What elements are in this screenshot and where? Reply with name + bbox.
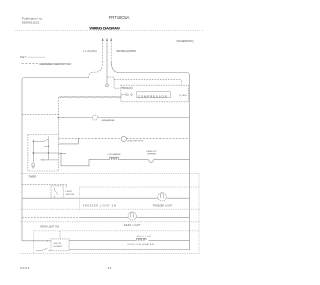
run winding wire (fine dotted) — [59, 96, 121, 98]
mullion heater wire — [69, 239, 137, 241]
svg-text:ENERGIZED IN DEFROST ONLY: ENERGIZED IN DEFROST ONLY — [40, 62, 72, 66]
svg-text:KEY: KEY — [20, 55, 27, 59]
wire ground run to compressor right (dashed) — [114, 80, 182, 85]
cabinet dotted right vertical — [198, 174, 200, 254]
compressor internal terminals — [131, 87, 133, 89]
svg-text:4(2): 4(2) — [125, 95, 129, 97]
timer contact arm — [33, 139, 48, 141]
lower return wire to bus — [69, 249, 190, 251]
svg-text:(MULLION HEATER): (MULLION HEATER) — [128, 243, 155, 246]
bottom circuit wire from bus — [22, 240, 51, 242]
junction riser/defrost wire — [78, 138, 79, 139]
svg-text:COIL HEATER: COIL HEATER — [108, 153, 121, 156]
refrigerator light wire — [22, 216, 80, 218]
timer box (dashed) — [28, 135, 59, 172]
svg-text:MULLION: MULLION — [137, 236, 151, 238]
mullion heater element — [137, 238, 146, 240]
svg-text:FRT18C5A: FRT18C5A — [109, 15, 130, 20]
svg-text:THERMO: THERMO — [147, 154, 157, 156]
power cord arrow neutral — [110, 38, 112, 41]
evap fan motor FM — [92, 115, 97, 120]
timer internal rung extra — [44, 145, 49, 147]
wire L1 curve to left — [89, 61, 103, 78]
evap fan wire — [22, 113, 58, 115]
freezer lamp — [158, 193, 166, 201]
svg-text:WIRING DIAGRAM: WIRING DIAGRAM — [89, 25, 119, 30]
wire L1 horizontal run — [22, 78, 89, 81]
svg-text:LIGHT: LIGHT — [66, 191, 73, 193]
wire L1 lead (dashed) — [102, 43, 104, 62]
defrost heater DH — [121, 136, 126, 141]
header dotted rule — [15, 29, 205, 31]
compressor internal stubs — [121, 88, 124, 95]
power cord arrow ground — [106, 38, 108, 41]
svg-text:(FM) EVAP FAN: (FM) EVAP FAN — [102, 119, 115, 122]
timer internal wire 3 — [40, 159, 59, 161]
svg-text:12: 12 — [108, 266, 112, 270]
freezer door dotted left edge — [79, 187, 81, 209]
svg-text:L1 (16) BLK: L1 (16) BLK — [84, 51, 98, 53]
junction at fan feed — [58, 117, 60, 119]
timer internal junction — [48, 152, 49, 153]
svg-text:04/01: 04/01 — [20, 266, 30, 270]
wire left bus — [21, 81, 23, 241]
cabinet dotted line 2 — [80, 186, 199, 188]
svg-text:FREEZER LIGHT: FREEZER LIGHT — [153, 206, 173, 208]
freezer switch feed (dashed) — [22, 184, 67, 188]
coil heater resistor — [89, 157, 148, 159]
timer junction dots — [33, 141, 34, 142]
timer contact riser — [58, 138, 78, 144]
svg-text:SW ON: SW ON — [54, 243, 62, 245]
defrost heater wire (dashed) — [58, 137, 189, 139]
key legend rule — [28, 56, 46, 58]
timer internal wire 2 — [33, 152, 58, 154]
timer ground symbol — [32, 163, 35, 166]
label SW / HI WATT — [54, 243, 63, 248]
dashed drop from run wire to timer — [57, 97, 59, 134]
timer internal common vertical — [32, 140, 34, 163]
refr door dotted top edge — [34, 230, 199, 232]
label LIGHT SWITCH — [66, 191, 75, 196]
cabinet dotted line 5 — [20, 252, 199, 254]
ground terminal circle — [106, 84, 109, 87]
svg-text:DEFROST: DEFROST — [146, 151, 157, 153]
defrost thermostat symbol — [148, 159, 154, 162]
defrost heater circuit jog — [58, 153, 89, 165]
header publication text — [22, 16, 43, 24]
svg-text:SWITCH: SWITCH — [66, 194, 75, 196]
timer internal vertical 2 — [48, 137, 50, 160]
wire neutral curve to right — [111, 61, 189, 76]
wire neutral lead (dashed) — [110, 43, 112, 62]
wire ground lead — [106, 43, 108, 84]
cabinet dotted line 3 — [20, 208, 199, 210]
key legend dashed sample — [22, 63, 38, 65]
freezer light wire — [22, 197, 190, 199]
svg-text:(T) BLK: (T) BLK — [179, 95, 187, 97]
svg-text:REFR LIGHT SW: REFR LIGHT SW — [40, 227, 59, 229]
wire thermostat to bus — [154, 158, 190, 160]
svg-text:REFR LIGHT: REFR LIGHT — [124, 225, 141, 227]
refrigerator lamp — [128, 212, 136, 220]
wire heater to bus — [149, 239, 190, 241]
junction bottom wire — [47, 240, 48, 241]
wire ground branch to compressor shell (dashed) — [107, 77, 121, 88]
freezer light switch box (dashed) — [51, 186, 63, 198]
freezer switch contact — [55, 188, 59, 198]
cabinet dotted left vertical — [33, 231, 35, 254]
svg-text:TIMER: TIMER — [28, 174, 36, 178]
svg-text:COMPRESSOR: COMPRESSOR — [138, 95, 168, 99]
svg-text:NEUTRAL (27) WHITE: NEUTRAL (27) WHITE — [117, 50, 137, 53]
cabinet dotted line 4 — [20, 221, 199, 223]
svg-text:FREEZER LIGHT SW: FREEZER LIGHT SW — [83, 206, 117, 208]
power cord arrow L1 — [102, 38, 104, 41]
compressor box (dashed) — [121, 85, 189, 102]
energy saver switch box — [51, 239, 69, 251]
energy saver switch contact — [36, 248, 51, 250]
compressor shell outline — [137, 92, 170, 98]
svg-text:(DH) DEF HTR: (DH) DEF HTR — [127, 141, 143, 143]
svg-text:(SCHEMATIC): (SCHEMATIC) — [177, 39, 194, 43]
svg-text:5995421622: 5995421622 — [22, 20, 40, 24]
cabinet dotted line 1 — [20, 173, 199, 175]
svg-text:HI WATT: HI WATT — [54, 245, 63, 248]
svg-text:GRN(4): GRN(4) — [122, 88, 130, 90]
stub to door boundary — [59, 231, 61, 239]
label DEFROST THERMO — [146, 151, 157, 156]
wire right bus — [189, 76, 191, 251]
